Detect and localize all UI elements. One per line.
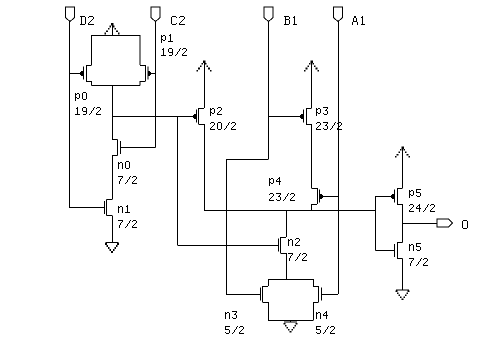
label n3 xyxy=(225,311,244,334)
node VDD tent above p2 xyxy=(197,60,212,108)
label B1 xyxy=(284,16,297,25)
label p5 xyxy=(409,189,435,212)
wire n2 source down xyxy=(286,253,288,279)
transistor p0 xyxy=(70,65,92,82)
transistor n4 xyxy=(313,286,338,303)
wire n5 source down xyxy=(402,259,404,290)
node VDD tent above p3 xyxy=(304,60,319,108)
label p0 xyxy=(75,92,101,115)
wire p5 drain to output xyxy=(402,204,404,223)
transistor n0 xyxy=(112,140,156,156)
node VDD tent above p0/p1 xyxy=(105,23,120,35)
label n5 xyxy=(409,243,428,266)
wire A1 vertical xyxy=(338,22,340,295)
wire n3/n4 source line xyxy=(268,320,313,322)
label A1 xyxy=(352,16,365,25)
wire n0 source to n1 drain xyxy=(112,156,114,200)
ground under n3/n4 xyxy=(284,321,298,333)
transistor n5 xyxy=(376,243,403,259)
wire B1 vertical xyxy=(268,22,270,160)
label n0 xyxy=(118,161,137,184)
transistor n3 xyxy=(226,286,268,303)
label p1 xyxy=(161,34,187,56)
wire p2 drain down xyxy=(204,124,206,210)
label p4 xyxy=(269,177,295,201)
wire p0 drain down xyxy=(91,81,93,86)
transistor n2 xyxy=(279,237,287,254)
node X to inverter gate vertical xyxy=(375,196,377,251)
node VDD tent above p5 xyxy=(395,147,410,189)
label C2 xyxy=(171,16,185,25)
wire n3/n4 drain line xyxy=(268,279,313,281)
pin A1 xyxy=(333,7,342,22)
transistor p5 xyxy=(376,188,403,205)
wire B1 branch down to n3 gate xyxy=(226,159,228,294)
wire p0/p1 source box top xyxy=(92,35,140,37)
label n4 xyxy=(316,311,335,334)
label n2 xyxy=(288,238,307,261)
wire output junction to n5 xyxy=(402,223,404,243)
label n1 xyxy=(118,205,137,228)
label p3 xyxy=(316,107,342,130)
transistor p3 xyxy=(269,108,312,125)
wire D2 vertical xyxy=(69,22,71,209)
pin D2 xyxy=(65,7,74,22)
node Y branch down xyxy=(177,116,179,245)
ground under n1 xyxy=(105,216,119,253)
wire n3 drain up xyxy=(268,279,270,286)
wire p0/p1 box right xyxy=(139,35,141,65)
wire C2 vertical xyxy=(155,22,157,148)
transistor p1 xyxy=(140,65,156,82)
node Y vertical xyxy=(112,86,114,140)
wire n3 source down xyxy=(268,302,270,321)
pin O output xyxy=(437,219,453,227)
pin B1 xyxy=(264,7,273,22)
wire p1 drain down xyxy=(139,81,141,86)
label O xyxy=(462,220,468,229)
wire n2 drain up xyxy=(286,210,288,237)
wire p0/p1 drain line xyxy=(92,85,140,87)
pin C2 xyxy=(151,7,160,22)
transistor p4 xyxy=(312,188,339,205)
transistor p2 xyxy=(112,108,204,125)
wire n4 drain up xyxy=(313,279,315,286)
node X horizontal xyxy=(204,210,376,212)
wire n4 source down xyxy=(313,302,315,321)
transistor n1 xyxy=(70,200,113,216)
wire p4 drain down xyxy=(311,204,313,210)
node Y branch to n2 gate xyxy=(178,245,279,247)
label D2 xyxy=(80,16,94,25)
ground under n5 xyxy=(396,290,410,300)
wire p3 source to p4 drain xyxy=(311,124,313,188)
wire B1 horizontal jog xyxy=(226,159,269,161)
label p2 xyxy=(210,107,236,130)
wire p0/p1 box left xyxy=(91,35,93,65)
wire output horizontal xyxy=(403,223,438,225)
